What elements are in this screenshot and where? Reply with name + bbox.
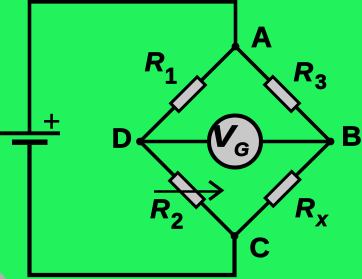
wire A to B — [236, 47, 331, 142]
node B junction dot — [327, 138, 335, 146]
wire top loop from battery + to node A — [30, 2, 236, 134]
battery plus sign — [44, 114, 59, 129]
wire D to A — [140, 47, 236, 142]
svg-text:R: R — [295, 193, 315, 223]
svg-text:1: 1 — [165, 63, 177, 88]
wire galvanometer to B — [258, 140, 331, 144]
svg-text:2: 2 — [171, 209, 183, 234]
svg-text:D: D — [112, 123, 132, 154]
svg-text:x: x — [315, 209, 328, 231]
svg-text:R: R — [150, 194, 170, 224]
svg-text:R: R — [145, 47, 165, 77]
svg-text:R: R — [294, 57, 314, 87]
resistor Rx body — [265, 171, 300, 206]
node C junction dot — [231, 232, 239, 240]
label R2 — [150, 194, 183, 234]
label Rx — [295, 193, 328, 231]
wire C to B — [235, 142, 331, 237]
R2 wiper arrow — [154, 182, 222, 199]
svg-text:B: B — [342, 121, 362, 152]
svg-text:G: G — [234, 139, 249, 161]
svg-text:3: 3 — [315, 71, 327, 94]
node A junction dot — [232, 43, 240, 51]
wire D to C — [140, 142, 235, 237]
battery B1 negative plate — [12, 139, 48, 144]
battery B1 positive plate — [0, 131, 60, 135]
variable resistor R2 body — [170, 173, 205, 208]
resistor R3 body — [265, 77, 300, 112]
galvanometer VG — [209, 116, 261, 168]
svg-text:C: C — [250, 232, 270, 263]
svg-text:A: A — [251, 22, 272, 54]
wire from battery - to bottom rail — [30, 145, 235, 275]
label R1 — [145, 47, 177, 88]
node D junction dot — [136, 138, 144, 146]
label R3 — [294, 57, 327, 94]
wire D to galvanometer — [140, 140, 212, 144]
resistor R1 body — [171, 77, 206, 112]
